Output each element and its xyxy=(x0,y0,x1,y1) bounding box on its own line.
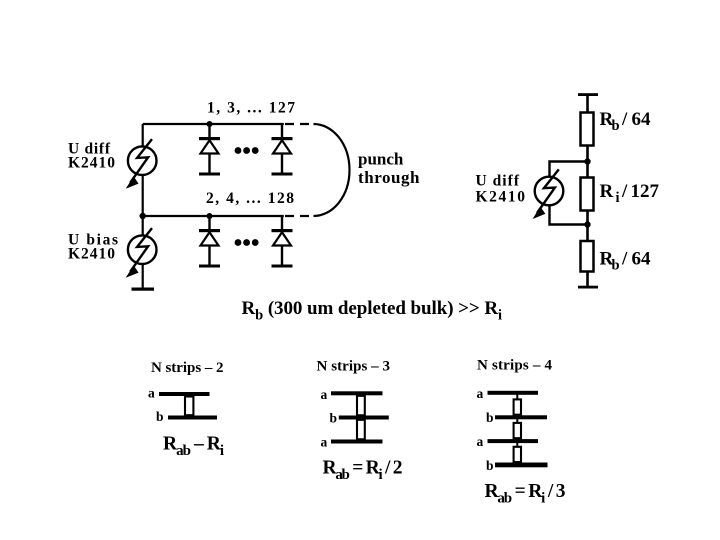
svg-text:N strips – 3: N strips – 3 xyxy=(317,359,391,375)
source U3 Udiff K2410 xyxy=(534,169,563,217)
svg-text:through: through xyxy=(358,168,420,187)
terminal bar bottom xyxy=(578,286,598,289)
diode D1 (top row first) xyxy=(199,124,220,176)
strip a2 xyxy=(331,440,383,444)
terminal bar top xyxy=(578,93,598,96)
svg-text:K2410: K2410 xyxy=(68,246,115,263)
svg-text:b: b xyxy=(486,458,494,473)
svg-text:a: a xyxy=(477,386,484,401)
wire resistor2 to junction2 xyxy=(586,211,589,242)
ground bar xyxy=(132,288,155,291)
svg-text:a: a xyxy=(321,435,328,450)
resistor strip1 xyxy=(357,396,365,416)
diode D128 (bottom row last) xyxy=(272,216,293,268)
wire bottom rail xyxy=(143,215,284,217)
resistor Rb/64 top xyxy=(581,113,594,146)
strip b2 xyxy=(495,463,548,468)
wire top rail xyxy=(143,123,284,125)
punch-through arc xyxy=(314,124,350,216)
wire junction1 to source xyxy=(550,162,588,177)
svg-text:a: a xyxy=(148,386,155,401)
svg-text:punch: punch xyxy=(358,150,404,169)
node junction1 xyxy=(584,158,590,164)
dots ellipsis bottom row xyxy=(235,239,259,246)
svg-text:b: b xyxy=(486,410,494,425)
node junction2 xyxy=(584,221,590,227)
resistor strip2 xyxy=(357,420,365,440)
wire resistor to junction1 xyxy=(586,146,589,178)
wire dashed top xyxy=(285,123,314,125)
strip b1 xyxy=(495,415,547,419)
strip a1 xyxy=(331,391,383,395)
resistor strip3 xyxy=(514,443,521,465)
resistor strip1 xyxy=(514,394,521,416)
strip a xyxy=(159,392,210,396)
source U1 Udiff K2410 xyxy=(127,139,156,187)
wire dashed bottom xyxy=(285,215,314,217)
svg-text:b: b xyxy=(330,411,338,426)
strip b xyxy=(339,416,389,420)
resistor Ri/127 xyxy=(581,178,594,211)
svg-text:b: b xyxy=(156,409,164,424)
strip a2 xyxy=(488,439,539,443)
resistor Rb/64 bottom xyxy=(581,241,594,272)
node junction top rail xyxy=(207,121,213,127)
resistor strip1 xyxy=(185,397,193,416)
diode D127 (top row last) xyxy=(272,124,293,176)
resistor strip2 xyxy=(514,419,521,441)
svg-text:U diff: U diff xyxy=(476,173,520,190)
node junction between sources xyxy=(140,213,146,219)
dots ellipsis top row xyxy=(235,147,259,154)
wire from U bias to ground xyxy=(142,264,144,289)
diode D2 (bottom row first) xyxy=(199,216,220,268)
svg-text:a: a xyxy=(321,387,328,402)
wire bottom xyxy=(586,272,589,288)
strip a1 xyxy=(488,391,539,395)
svg-text:N strips – 4: N strips – 4 xyxy=(477,358,553,374)
source U2 U bias K2410 xyxy=(127,228,156,276)
wire top xyxy=(586,95,589,113)
svg-text:a: a xyxy=(477,434,484,449)
svg-text:K2410: K2410 xyxy=(68,155,115,172)
wire from Udiff to junction xyxy=(142,175,144,216)
wire from U bias junction down xyxy=(142,216,144,235)
node junction bottom rail xyxy=(207,213,213,219)
wire source to junction2 xyxy=(550,206,588,225)
wire left vertical from rail to Udiff source xyxy=(142,124,144,147)
svg-text:N strips – 2: N strips – 2 xyxy=(151,360,224,376)
svg-text:K2410: K2410 xyxy=(476,189,526,206)
strip b xyxy=(168,416,217,420)
